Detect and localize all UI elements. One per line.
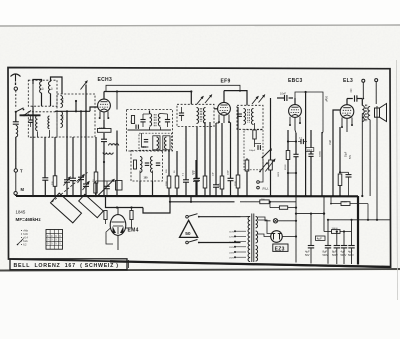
IF1 cap Ca	[140, 119, 145, 121]
tube EL3	[340, 105, 354, 119]
svg-text:110V: 110V	[229, 232, 234, 234]
transformer sec 1	[256, 217, 258, 228]
voltage table	[46, 230, 63, 250]
IF1 resistor small	[131, 116, 134, 124]
svg-text:50: 50	[185, 231, 191, 237]
wire x210 drop	[209, 122, 211, 196]
wire x230 cap	[229, 122, 231, 124]
capacitor C-f4	[343, 232, 345, 246]
terminal M	[14, 192, 17, 195]
ECH3 top lead	[103, 92, 105, 100]
box D core	[199, 108, 201, 122]
EBC3 pins	[289, 117, 291, 124]
det switch	[260, 162, 268, 172]
capacitor C-ant	[13, 121, 19, 123]
svg-text:+0.4: +0.4	[23, 238, 28, 240]
capacitor C-f3	[336, 232, 338, 246]
wire mains 1	[199, 216, 241, 218]
IF2 trimmer arrow 1	[252, 96, 259, 104]
wire box D top	[190, 92, 192, 105]
wire x76 drop	[75, 101, 77, 111]
resistor R-15000	[323, 214, 325, 232]
capacitor C-x296	[295, 133, 297, 154]
osc caps	[145, 162, 149, 164]
EF9 grid lead	[214, 108, 218, 110]
trimmer arrow A4	[83, 181, 90, 190]
EM4 internals	[112, 221, 125, 223]
EL3 cathode wire	[341, 127, 343, 172]
svg-text:M: M	[21, 187, 25, 192]
title box	[10, 259, 127, 270]
EL3 grid wire	[333, 110, 340, 196]
wire term1 down	[362, 82, 364, 98]
svg-text:250V: 250V	[229, 258, 234, 260]
osc resistor	[134, 160, 137, 169]
wire x216 cap	[216, 122, 219, 124]
box D winding W2	[204, 108, 206, 124]
EF9 pins	[218, 115, 220, 122]
svg-text:25000: 25000	[285, 164, 287, 170]
ECH3 cathode resistor	[103, 120, 105, 128]
EM4 bottom lead	[117, 235, 119, 250]
IF2 winding W1	[244, 109, 246, 125]
capacitor C-f1	[310, 214, 312, 246]
wire y173	[288, 172, 296, 174]
wave switch S1	[15, 111, 17, 113]
svg-text:500V: 500V	[341, 254, 347, 257]
svg-text:150V: 150V	[229, 242, 234, 244]
IF1 wire top	[149, 111, 151, 114]
EL3 pins	[341, 118, 343, 127]
trimmer arrow A3	[78, 174, 85, 183]
EZ3 label box	[273, 244, 288, 251]
wire x117 stub	[116, 92, 118, 110]
terminal out 1	[362, 79, 365, 82]
EL3 cathode cap	[340, 171, 349, 173]
svg-text:50000: 50000	[142, 146, 150, 149]
output transformer core	[365, 105, 367, 123]
output transformer primary	[362, 106, 364, 122]
svg-text:1000: 1000	[63, 114, 65, 120]
AVC line	[106, 85, 240, 92]
wire ECH3 cathode to bus	[103, 195, 105, 197]
wire x306 drop	[305, 92, 307, 196]
svg-text:EBC3: EBC3	[288, 78, 303, 84]
ECH3 grid lead	[90, 107, 98, 111]
wire R-x96 to bus	[95, 183, 97, 196]
svg-text:1MΩ: 1MΩ	[329, 140, 332, 145]
wire L2 top	[51, 77, 63, 94]
wire OT prim bottom	[361, 114, 363, 197]
wire x117	[116, 121, 118, 196]
wire ECH3 plate run	[104, 91, 191, 93]
IF1 winding W1	[150, 114, 152, 127]
IF1 winding W3	[153, 136, 160, 150]
box D cap	[179, 112, 184, 114]
heater wire run 2	[143, 202, 235, 213]
IF2 cap left	[237, 113, 242, 115]
wire EBC3 plate jog	[295, 130, 296, 133]
small cap left box	[29, 119, 33, 121]
IF2 cap 100pF	[255, 143, 262, 145]
resistor R-x96	[94, 172, 98, 183]
tube EBC3	[289, 105, 302, 118]
capacitor C-f2	[327, 220, 329, 245]
coil L2	[49, 82, 51, 94]
svg-text:50000: 50000	[319, 150, 321, 157]
capacitor C-x196	[195, 160, 197, 179]
EL3 top lead	[346, 99, 348, 105]
wire EBC3 to 50pF	[295, 92, 323, 132]
wire x296 vertical	[295, 196, 297, 262]
wire trafo bottom	[249, 262, 251, 264]
volume pot	[270, 98, 272, 160]
box D winding W1	[197, 108, 199, 124]
svg-text:4µF: 4µF	[317, 237, 322, 241]
osc coil box (dashed)	[131, 151, 163, 182]
wire x377 B+	[376, 106, 378, 220]
padder resistor	[94, 183, 97, 193]
svg-text:15000: 15000	[332, 228, 339, 230]
box D trimmer arrow 1	[197, 96, 204, 105]
page bottom rule	[0, 269, 400, 271]
heavy link bus	[20, 114, 41, 116]
heavy ground bus	[16, 195, 358, 197]
wire x33 to bus	[32, 106, 34, 196]
resistor R-em4-a	[104, 211, 107, 220]
IF1 winding W4	[163, 136, 170, 150]
EZ3 cathode wire	[282, 236, 296, 238]
capacitor C-10nF	[289, 97, 293, 99]
heater drops	[169, 196, 171, 202]
tube EZ3	[271, 231, 283, 243]
svg-text:MF=468kHz: MF=468kHz	[16, 217, 42, 222]
IF2 resistor	[254, 123, 256, 130]
resistor R-x55	[53, 176, 57, 187]
resistor R-x177	[176, 151, 178, 176]
jog 50pF	[322, 132, 323, 134]
capacitor C-x186	[185, 127, 187, 180]
svg-text:ECH3: ECH3	[98, 77, 113, 83]
wire x331 up	[330, 196, 332, 203]
EBC3 top lead	[294, 98, 296, 105]
IF2 winding W2	[252, 109, 254, 125]
wire lamp right	[278, 220, 296, 222]
svg-text:125V: 125V	[229, 237, 234, 239]
gang link dashed	[52, 172, 88, 202]
wire y141 run	[288, 141, 296, 143]
svg-text:6.2u: 6.2u	[23, 241, 28, 243]
svg-text:5000: 5000	[342, 202, 348, 204]
voltage tap dots	[234, 230, 236, 232]
antenna lead dashed	[15, 90, 17, 108]
wire x322 drop	[321, 132, 323, 196]
antenna terminal	[14, 87, 17, 90]
svg-text:500V: 500V	[323, 254, 329, 257]
tuning gang frame 1	[51, 193, 82, 223]
heavy bottom bus wire	[110, 261, 390, 267]
coil L3	[36, 116, 38, 131]
osc winding Wa	[140, 157, 142, 173]
svg-text:100: 100	[144, 177, 149, 180]
measurement list	[21, 230, 22, 231]
50Hz triangle	[180, 220, 198, 237]
svg-text:4nF: 4nF	[350, 88, 353, 93]
switch S2 arm	[24, 111, 31, 116]
terminal out 2	[375, 79, 378, 82]
resistor R-5000	[331, 203, 341, 205]
padder trimmer arrow	[97, 179, 115, 197]
svg-text:10nF: 10nF	[227, 169, 229, 175]
capacitor C-x45	[42, 177, 48, 179]
resistor R-x169	[168, 151, 170, 176]
wire x117 long	[116, 131, 118, 197]
svg-text:50V: 50V	[305, 254, 310, 257]
tube EM4	[110, 215, 126, 236]
transformer sec 2	[256, 231, 258, 243]
wire mains 2	[199, 242, 241, 244]
IF2 box (dashed)	[237, 105, 263, 129]
IF1 winding W2	[158, 114, 160, 127]
padder cap	[104, 185, 110, 187]
wire x73	[72, 137, 74, 178]
ECH3 pins	[99, 111, 101, 117]
svg-text:10nF: 10nF	[280, 92, 286, 96]
antenna coil box (dashed)	[28, 80, 57, 106]
wire x197 cap	[196, 127, 198, 178]
resistor R-em4-c	[131, 208, 133, 211]
trimmer arrow A2	[64, 177, 71, 186]
wire T to M	[15, 172, 17, 191]
svg-text:EL3: EL3	[343, 78, 353, 84]
wire x222 res	[221, 123, 223, 176]
wire term2 down	[375, 82, 377, 104]
svg-text:40000: 40000	[99, 128, 106, 130]
wire x67 trimmer	[66, 111, 68, 179]
wire x45 upper	[44, 137, 46, 178]
wire L1 bottom	[41, 93, 43, 106]
wire L-ant down	[15, 137, 17, 169]
wire B+ y213.6	[296, 213, 324, 215]
wire x96	[95, 137, 97, 172]
resistor R-htr2	[270, 207, 279, 209]
wire trafo prim top	[241, 216, 251, 218]
wire L2 bottom	[50, 94, 52, 107]
PU switch wire	[259, 159, 263, 183]
IF1 cap Cb	[165, 119, 170, 121]
tube EF9	[218, 102, 231, 115]
svg-text:50V: 50V	[350, 154, 352, 159]
wire x86 varcap	[85, 111, 87, 183]
coil box A inner wire	[32, 84, 34, 106]
capacitor C-4nF	[347, 98, 353, 100]
svg-text:P.U.: P.U.	[263, 187, 269, 191]
wire x205 res	[204, 122, 206, 176]
osc wires	[139, 171, 141, 182]
coil L1	[40, 82, 42, 93]
svg-text:245V: 245V	[229, 252, 234, 254]
PU terminal 2	[257, 186, 260, 189]
mains switch pole 2	[186, 241, 189, 244]
IF1 mid wire	[128, 129, 172, 131]
IF1 core	[153, 114, 155, 127]
padder junction	[103, 161, 105, 163]
heater wire run 1	[106, 196, 144, 208]
resistor R-x288	[287, 130, 289, 151]
radio/PU switch arm	[263, 149, 272, 158]
wire M to bus	[15, 195, 17, 196]
osc box D (dashed)	[177, 104, 214, 126]
svg-text:EF9: EF9	[221, 78, 231, 84]
antenna symbol	[11, 74, 21, 77]
box D trimmer arrow 2	[205, 95, 212, 104]
wire x86	[85, 85, 87, 112]
wire B+ y219.8	[328, 219, 390, 221]
capacitor C-f5	[351, 220, 353, 245]
IF2 core	[247, 109, 249, 123]
wire x81 varcap	[80, 111, 82, 177]
IF1 lower caps	[144, 139, 148, 141]
title box tick	[128, 260, 130, 268]
output transformer secondary	[368, 107, 370, 120]
svg-text:500V: 500V	[332, 254, 338, 257]
osc feedback coil a	[109, 144, 119, 146]
IF2 trimmer arrow 2	[259, 95, 266, 103]
wire R-x55 to bus	[54, 186, 56, 196]
voltage tap lines	[235, 230, 246, 232]
padder box	[116, 181, 123, 191]
paper scan noise	[0, 26, 400, 271]
pointer line	[18, 239, 24, 245]
schematic border frame	[8, 68, 391, 268]
capacitor C-y141	[300, 139, 302, 144]
label 10nF box	[306, 148, 314, 152]
wire ECH3 heater drop	[105, 196, 107, 208]
trimmer arrow A1	[81, 81, 88, 90]
coil L6	[61, 112, 63, 128]
svg-text:+Ma: +Ma	[23, 231, 28, 233]
IF1 lower box (dashed)	[139, 133, 172, 150]
EF9 top lead	[223, 91, 225, 103]
wire mains2 to tap	[235, 243, 241, 258]
osc winding Wb	[151, 157, 153, 173]
wire x324 up	[323, 196, 325, 213]
terminal T	[14, 169, 17, 172]
svg-text:6.4V: 6.4V	[23, 234, 28, 236]
IF1 box (dashed)	[127, 110, 173, 152]
IF2 lower box (dashed)	[244, 130, 263, 170]
resistor R-250	[235, 201, 260, 203]
coil L3b cross	[37, 132, 39, 138]
tuning gang frame 2	[79, 194, 104, 217]
lower coil box (dashed)	[28, 112, 57, 137]
svg-text:50µF: 50µF	[346, 151, 348, 157]
page top rule	[0, 25, 400, 26]
speaker	[375, 108, 380, 117]
svg-text:BELL LORENZ 167 ( SCHWEIZ ): BELL LORENZ 167 ( SCHWEIZ )	[14, 263, 119, 269]
wire OT primary top	[361, 99, 363, 106]
svg-text:EZ3: EZ3	[275, 246, 285, 252]
wire em4 grid	[125, 227, 131, 229]
wire x247 det	[246, 158, 248, 160]
coil L5	[61, 96, 63, 108]
osc feedback coil b	[103, 153, 113, 155]
PU terminal 1	[257, 181, 260, 184]
page right edge mark	[397, 60, 398, 300]
svg-text:1000: 1000	[63, 97, 65, 103]
wire antenna to cap	[15, 112, 17, 122]
EL3 cathode resistor	[338, 174, 342, 186]
wire x55	[54, 137, 56, 176]
wire x311 drop	[310, 130, 312, 154]
wire L1 top	[33, 80, 42, 85]
transformer sec 3	[256, 246, 258, 262]
EM4 top stem	[117, 208, 119, 215]
mains switch pole 1	[186, 215, 189, 218]
coil L4	[48, 116, 50, 129]
wire x238 res	[237, 107, 239, 175]
EZ3 heater leads	[258, 234, 271, 237]
transformer core	[251, 214, 253, 263]
tube ECH3	[98, 99, 111, 112]
wire x210 mains drop	[209, 202, 211, 211]
svg-text:500V: 500V	[348, 254, 354, 257]
svg-text:T: T	[20, 169, 23, 174]
wire EF9 plate run	[224, 91, 247, 106]
EM4 leads	[117, 211, 118, 215]
IF1 inner wires	[149, 127, 151, 130]
wire y111 run	[55, 110, 90, 112]
svg-text:1nF: 1nF	[213, 172, 215, 176]
capacitor C-ech-k	[103, 133, 105, 139]
input coil box (dashed)	[57, 94, 95, 137]
svg-text:220V: 220V	[229, 247, 234, 249]
wire x328 up	[327, 196, 329, 220]
wire sec1 out	[258, 217, 271, 221]
coil L-ant	[16, 126, 18, 137]
EZ3 anode lead	[258, 220, 271, 234]
svg-text:10nF: 10nF	[307, 149, 313, 152]
padder wire	[96, 180, 116, 182]
heavy right bus drop	[357, 196, 359, 265]
capacitor 4uF label box	[316, 236, 326, 240]
svg-text:50pF: 50pF	[325, 96, 329, 102]
pilot lamp	[273, 219, 277, 223]
svg-text:100pF: 100pF	[249, 150, 256, 152]
svg-text:1845: 1845	[16, 210, 26, 215]
wire OT sec bottom	[369, 120, 371, 196]
transformer primary	[248, 217, 250, 262]
